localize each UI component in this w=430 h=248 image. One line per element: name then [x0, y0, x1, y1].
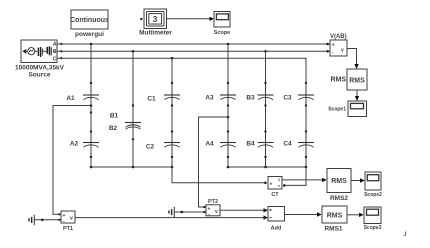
svg-text:3: 3	[153, 14, 158, 24]
svg-text:RMS: RMS	[349, 77, 365, 84]
wire bus phase A	[57, 43, 330, 45]
svg-text:C2: C2	[146, 144, 155, 151]
svg-text:B3: B3	[246, 94, 255, 101]
capacitor A3	[220, 82, 236, 107]
capacitor A1	[83, 82, 99, 107]
leg A wire	[90, 44, 92, 167]
V(AB) input port dots	[326, 43, 329, 46]
svg-text:A: A	[53, 41, 57, 47]
wire V(AB) to RMS	[347, 49, 357, 65]
ground G1	[28, 215, 61, 226]
leg A3 wire	[227, 44, 229, 167]
node bus C / leg C junction	[171, 57, 174, 60]
svg-text:10000MVA,35kV: 10000MVA,35kV	[15, 64, 65, 71]
leg B3 wire	[265, 51, 267, 167]
svg-text:V(AB): V(AB)	[330, 34, 347, 40]
svg-text:A2: A2	[70, 140, 79, 147]
svg-text:-: -	[332, 50, 334, 56]
wire bus phase B	[57, 50, 330, 52]
svg-text:Add: Add	[271, 226, 282, 232]
node A3-A4 junction	[227, 116, 230, 119]
svg-text:RMS: RMS	[327, 212, 343, 219]
svg-text:A3: A3	[205, 94, 214, 101]
svg-text:RMS: RMS	[331, 178, 347, 185]
capacitor A2	[83, 130, 99, 158]
svg-text:C3: C3	[283, 94, 292, 101]
node bus B / leg B3 junction	[264, 50, 267, 53]
svg-text:v: v	[341, 48, 344, 54]
current transformer CT	[268, 177, 282, 190]
svg-text:A1: A1	[66, 95, 75, 102]
wire CT to RMS2	[282, 179, 323, 181]
capacitor B3	[258, 82, 274, 107]
svg-text:C1: C1	[147, 96, 156, 103]
capacitor C2	[164, 130, 180, 158]
RMS1 block	[322, 206, 347, 223]
voltage measurement PT1	[58, 211, 75, 225]
bank1 bottom bus	[91, 166, 172, 168]
svg-text:RMS2: RMS2	[330, 195, 348, 202]
svg-text:Continuous: Continuous	[70, 17, 109, 24]
svg-text:C4: C4	[283, 141, 292, 148]
RMS block (top)	[347, 69, 367, 90]
svg-text:CT: CT	[271, 192, 279, 198]
wire A junction to PT1	[53, 106, 91, 215]
svg-text:+: +	[270, 181, 273, 187]
svg-text:B1: B1	[110, 113, 119, 120]
svg-text:powergui: powergui	[75, 31, 104, 38]
wire RMS to Scope1	[356, 90, 358, 97]
powergui block	[70, 10, 109, 29]
svg-text:Scope3: Scope3	[364, 225, 382, 231]
capacitor C4	[298, 130, 314, 158]
source block 10000MVA,35kV	[21, 40, 57, 63]
node A1-A2 dot	[90, 111, 92, 113]
scope Scope1	[348, 101, 367, 117]
wire RMS2 to Scope2	[351, 180, 361, 182]
svg-text:PT2: PT2	[208, 199, 218, 205]
node bus A / leg A3 junction	[227, 43, 230, 46]
svg-text:PT1: PT1	[63, 226, 73, 232]
scope S0	[214, 12, 230, 28]
capacitor B4	[258, 130, 274, 158]
svg-text:.l: .l	[403, 232, 407, 238]
svg-text:Scope: Scope	[214, 30, 231, 36]
svg-text:B4: B4	[246, 141, 255, 148]
wire bank1 to CT	[172, 167, 264, 183]
wire bus phase C	[57, 58, 306, 167]
wire RMS1 to Scope3	[347, 214, 360, 216]
sum block Add	[268, 207, 285, 222]
bank2 bottom bus	[228, 166, 306, 168]
scope Scope2	[365, 172, 381, 190]
svg-text:Scope1: Scope1	[328, 107, 346, 113]
capacitor B1 B2	[125, 104, 141, 140]
svg-text:RMS: RMS	[330, 76, 346, 83]
wire multimeter to scope	[167, 18, 211, 20]
capacitor C3	[298, 82, 314, 107]
voltage measurement V(AB)	[330, 40, 347, 56]
wire PT2 to Add	[220, 209, 264, 211]
node bus B / leg B junction	[132, 50, 135, 53]
RMS2 block	[327, 169, 351, 193]
wire PT1 to Add	[75, 217, 264, 219]
svg-text:Source: Source	[28, 71, 50, 78]
leg C wire	[171, 58, 173, 167]
source port dots	[60, 43, 62, 45]
ground G2	[168, 207, 206, 218]
svg-text:Multimeter: Multimeter	[139, 30, 172, 37]
wire Add to RMS1	[285, 214, 318, 216]
multimeter M1	[140, 9, 166, 29]
wire bank2 to CT right port	[285, 167, 306, 185]
wire A3 junction to PT2	[199, 117, 229, 207]
svg-text:B2: B2	[109, 125, 118, 132]
svg-text:C: C	[53, 56, 57, 62]
capacitor C1	[164, 82, 180, 107]
capacitor A4	[220, 130, 236, 158]
svg-text:+: +	[332, 43, 335, 49]
node bus A / leg A junction	[90, 43, 93, 46]
voltage measurement PT2	[203, 205, 220, 218]
svg-text:RMS1: RMS1	[324, 226, 342, 233]
svg-text:A4: A4	[205, 141, 214, 148]
svg-text:v: v	[215, 209, 218, 215]
scope Scope3	[364, 207, 381, 224]
svg-text:v: v	[70, 216, 73, 222]
leg B wire	[132, 51, 134, 167]
svg-text:Scope2: Scope2	[364, 192, 382, 198]
